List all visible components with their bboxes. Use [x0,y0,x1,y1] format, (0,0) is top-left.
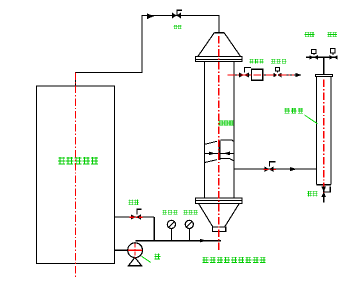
valve V4 on overflow line [265,162,276,172]
label near box B1 3 chars [250,59,264,63]
wire side line at y75 stub [234,74,239,76]
label vent (fangkong) [174,25,182,29]
arrow A1 on vent line [147,13,154,19]
gauge G2 thermometer [185,220,193,241]
label gauge G2 3 chars [183,210,198,215]
vessel E1 body [317,76,332,184]
wire line from valve V3 to arrow [282,74,297,76]
centerline red column [218,36,220,251]
label tap water 3 chars [271,59,286,64]
label pump 1 char [154,253,160,259]
valve V5 on tank return line [131,209,142,219]
valve V7 with square actuator [330,49,338,60]
tank T1 [37,86,115,264]
arrow A4 on discharge line [200,239,207,243]
column C1 outlet flange [212,227,225,231]
column C1 top flange [196,57,242,62]
wire return line to tank [115,216,155,218]
label above V7 2 chars [328,32,338,37]
label drain 2 chars [307,191,317,196]
label gauge G1 3 chars [162,210,177,215]
venturi throat bar [219,141,221,160]
wire line between box B1 and valve V3 [263,74,274,76]
column C1 bottom flange [196,198,242,204]
venturi flow line left with arrow [204,152,218,156]
valve V1 vent valve [172,10,182,18]
title text 9 chars [203,257,266,263]
label water seal 3 chars with leader [285,108,318,124]
valve V8 vessel drain vertical [321,186,330,197]
valve V2 on gas sample line [239,67,251,77]
wire vent pipe from tank top to column top [76,16,220,87]
venturi right section lines [221,140,234,161]
pump P1 [128,243,143,266]
box B1 flow meter [252,69,263,80]
vessel E1 lid [316,74,333,76]
venturi left converging lines [204,141,217,162]
wire vessel riser [323,57,325,74]
venturi flow line right with arrow [220,152,234,156]
label valve V5 2 chars [129,200,139,205]
wire vessel drain [323,185,325,203]
valve V3 with square actuator [273,67,281,77]
wire line valve V2 to box B1 [249,74,252,76]
centerline red at valve V5 [129,216,142,218]
column C1 bottom cone [199,203,240,227]
wire vessel top header [306,56,337,58]
centerline red tank [75,73,77,278]
centerline red at valve V4 [264,168,277,170]
centerline red vessel [323,80,325,198]
wire pump discharge line [136,240,221,242]
centerline red pump cross [128,243,142,258]
wire suction pipe tank to pump [115,249,128,251]
label above V6 2 chars [305,32,315,37]
wire overflow line column to vessel [234,168,317,170]
arrow A3 on overflow line [290,167,297,171]
label pump leader [142,256,151,262]
gauge G1 pressure [167,220,175,241]
column C1 top cone [198,33,241,57]
label tank 5 chars [58,157,98,165]
column C1 body walls [204,61,234,197]
centerline red on sample line [228,74,295,76]
label inside column 3 chars [219,120,234,125]
arrow A2 end of sample line [296,73,302,77]
wire branch riser to return line [153,217,155,241]
valve V6 with square actuator [309,49,318,59]
